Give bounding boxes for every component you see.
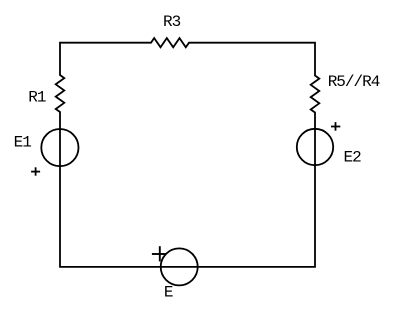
voltage source E bbox=[161, 248, 198, 285]
svg-text:E: E bbox=[164, 284, 173, 302]
polarity plus of E1 bbox=[31, 167, 40, 175]
wire loop with resistor R3 (top), resistor R5//R4 (right), resistor R1 (left) bbox=[56, 38, 320, 267]
svg-text:R5//R4: R5//R4 bbox=[328, 73, 380, 91]
svg-text:E1: E1 bbox=[14, 134, 32, 152]
polarity plus of E bbox=[152, 246, 166, 261]
voltage source E1 bbox=[41, 129, 78, 166]
voltage source E2 bbox=[297, 129, 333, 165]
svg-text:R3: R3 bbox=[163, 13, 181, 31]
svg-text:E2: E2 bbox=[344, 149, 362, 167]
polarity plus of E2 bbox=[331, 122, 340, 131]
svg-text:R1: R1 bbox=[28, 89, 46, 107]
